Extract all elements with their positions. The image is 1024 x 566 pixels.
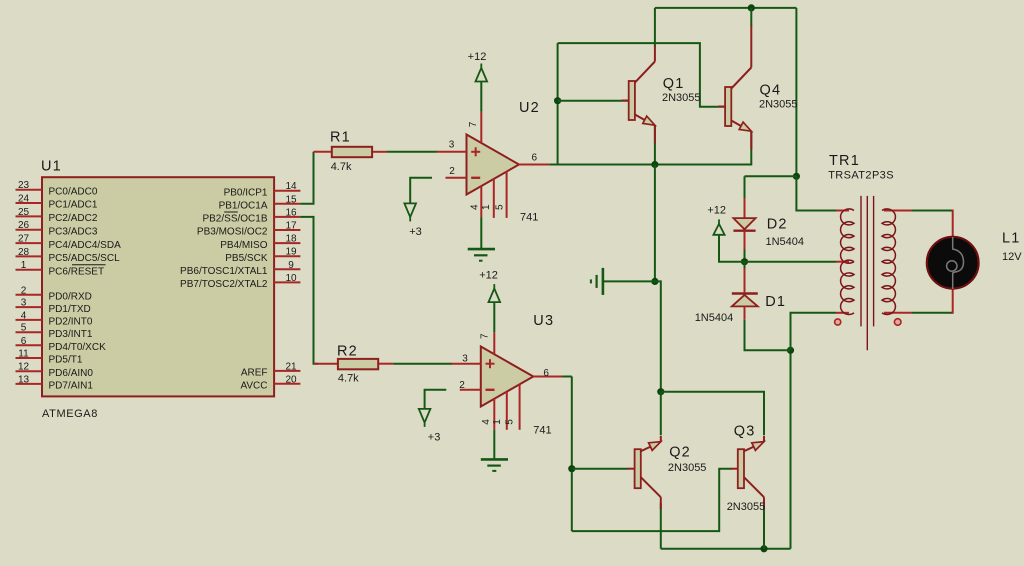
wire D2 node to D2 anode	[745, 175, 797, 177]
svg-text:25: 25	[18, 207, 30, 218]
wire bottom branch to Q3 base	[572, 469, 732, 531]
U1 pin 2 PD0/RXD	[16, 285, 92, 302]
svg-text:3: 3	[462, 354, 468, 365]
TR1 secondary winding	[882, 209, 912, 315]
svg-text:1: 1	[21, 260, 27, 271]
svg-text:AREF: AREF	[241, 368, 268, 379]
svg-text:+12: +12	[479, 270, 498, 282]
svg-text:1: 1	[492, 419, 503, 425]
Q1 collector lead	[635, 46, 655, 83]
svg-text:PC4/ADC4/SDA: PC4/ADC4/SDA	[49, 240, 122, 251]
svg-text:R2: R2	[337, 344, 358, 360]
wire diode junction to transformer center tap	[745, 261, 837, 263]
node ground junction dot	[651, 278, 658, 285]
svg-text:5: 5	[21, 323, 27, 334]
U3 pin 3 (+) lead	[451, 354, 481, 365]
svg-text:28: 28	[18, 247, 30, 258]
Q4 emitter lead with arrow	[731, 121, 751, 150]
svg-text:10: 10	[285, 273, 297, 284]
node D2 top junction dot	[793, 173, 800, 180]
svg-text:R1: R1	[330, 130, 351, 146]
svg-text:13: 13	[18, 374, 30, 385]
U2 pin 4 lead	[470, 186, 482, 217]
svg-text:Q1: Q1	[663, 76, 685, 92]
svg-text:Q3: Q3	[734, 424, 756, 440]
svg-text:+12: +12	[468, 51, 487, 63]
svg-text:U2: U2	[519, 100, 540, 116]
node U2out junction dot	[554, 97, 561, 104]
lamp L1	[927, 237, 979, 289]
svg-text:4: 4	[21, 310, 27, 321]
svg-text:PC3/ADC3: PC3/ADC3	[49, 226, 98, 237]
node Q2 emitter junction dot	[657, 388, 664, 395]
U1 pin 19 PB5/SCK	[225, 247, 300, 264]
svg-text:Q2: Q2	[669, 445, 691, 461]
svg-text:9: 9	[288, 260, 294, 271]
U3 pin 2 wire to +3 terminal	[425, 390, 447, 409]
svg-text:2: 2	[449, 166, 455, 177]
svg-text:27: 27	[18, 234, 30, 245]
Q2 collector lead	[641, 477, 661, 509]
svg-text:TRSAT2P3S: TRSAT2P3S	[828, 169, 894, 181]
svg-text:+12: +12	[707, 205, 726, 217]
svg-text:11: 11	[18, 349, 29, 360]
power terminal +12 above U3	[489, 284, 501, 302]
svg-text:2N3055: 2N3055	[759, 99, 798, 111]
node U3out junction dot	[568, 465, 575, 472]
U1 pin 6 PD4/T0/XCK	[16, 336, 107, 353]
svg-text:2N3055: 2N3055	[668, 462, 707, 474]
resistor R2	[314, 359, 393, 369]
wire lamp bottom to transformer secondary bottom	[912, 290, 953, 314]
svg-text:7: 7	[479, 333, 490, 339]
Q4 collector lead	[731, 25, 751, 89]
U1 pin 18 PB4/MISO	[220, 234, 300, 251]
wire D2 node to transformer primary top	[796, 176, 836, 210]
U2 pin 3 (+) lead	[437, 139, 467, 152]
wire Q4 collector riser	[750, 8, 752, 26]
power terminal +12 above U2	[476, 64, 488, 82]
svg-text:6: 6	[532, 152, 538, 163]
wire U2 pin4 to ground	[480, 217, 482, 248]
svg-text:PB6/TOSC1/XTAL1: PB6/TOSC1/XTAL1	[180, 266, 268, 277]
Q1 emitter lead with arrow	[635, 115, 655, 144]
svg-text:U3: U3	[533, 313, 554, 329]
svg-text:20: 20	[285, 374, 297, 385]
TR1 primary polarity dot	[835, 319, 841, 325]
wire D1 node to D1 cathode column	[745, 320, 791, 350]
svg-text:PC1/ADC1: PC1/ADC1	[49, 200, 98, 211]
U1 pin 10 PB7/TOSC2/XTAL2	[180, 273, 300, 290]
U1 pin 16 PB2/SS/OC1B	[202, 207, 300, 224]
svg-text:PB7/TOSC2/XTAL2: PB7/TOSC2/XTAL2	[180, 279, 268, 290]
U1 pin 9 PB6/TOSC1/XTAL1	[180, 260, 300, 277]
Q3 collector lead	[744, 477, 764, 509]
svg-text:23: 23	[18, 180, 30, 191]
svg-text:14: 14	[285, 181, 297, 192]
svg-text:PD0/RXD: PD0/RXD	[49, 292, 92, 303]
svg-text:2N3055: 2N3055	[662, 92, 701, 104]
U3 pin 1 lead	[492, 392, 507, 430]
U2 pin 2 wire to +3 terminal	[410, 178, 432, 204]
U1 pin 21 AREF	[241, 361, 301, 378]
power terminal +12 at diode junction	[713, 219, 744, 261]
svg-text:6: 6	[543, 368, 549, 379]
svg-text:PD5/T1: PD5/T1	[49, 355, 83, 366]
microcontroller U1 body	[42, 177, 274, 396]
wire U3 pin7 to +12 terminal	[493, 302, 495, 332]
wire Q1 emitter horizontal to Q4 emitter	[655, 125, 751, 165]
U1 pin 20 AVCC	[240, 374, 300, 391]
wire R2 to U3 pin3	[393, 363, 452, 365]
svg-text:18: 18	[285, 234, 297, 245]
U1 pin 13 PD7/AIN1	[16, 374, 94, 391]
wire Q3 collector drop	[763, 503, 765, 549]
svg-text:PC6/RESET: PC6/RESET	[49, 266, 105, 277]
svg-text:+3: +3	[409, 226, 422, 238]
svg-text:2: 2	[21, 285, 27, 296]
svg-text:12V: 12V	[1002, 251, 1022, 263]
U2 pin 5 lead	[494, 172, 506, 218]
svg-text:26: 26	[18, 220, 30, 231]
svg-text:7: 7	[468, 121, 479, 127]
svg-text:5: 5	[504, 419, 515, 425]
U1 pin 3 PD1/TXD	[16, 298, 91, 315]
wire right vertical to D2 node	[795, 8, 797, 176]
wire U2 pin7 to +12 terminal	[480, 82, 482, 112]
svg-text:U1: U1	[41, 159, 62, 175]
U1 pin 14 PB0/ICP1	[224, 181, 301, 198]
svg-text:PB5/SCK: PB5/SCK	[225, 253, 268, 264]
svg-text:TR1: TR1	[829, 153, 860, 169]
svg-text:ATMEGA8: ATMEGA8	[42, 408, 98, 420]
transformer TR1 core	[861, 196, 874, 350]
ground symbol below U3	[481, 459, 508, 471]
svg-text:3: 3	[449, 139, 455, 150]
wire to Q1 base	[558, 100, 629, 102]
U2 pin 7 lead	[468, 112, 481, 143]
svg-text:D1: D1	[765, 294, 786, 310]
wire Q2 emitter stub	[660, 392, 662, 435]
U3 pin 6 output lead	[533, 368, 562, 379]
TR1 secondary polarity dot	[894, 319, 901, 326]
U1 pin 23 PC0/ADC0	[16, 180, 98, 197]
svg-text:PD3/INT1: PD3/INT1	[49, 329, 93, 340]
wire pin16 to R2	[300, 217, 318, 364]
Q2 emitter lead with arrow	[641, 436, 661, 452]
transistor Q3 (2N3055) body bar	[731, 449, 744, 488]
U1 pin 12 PD6/AIN0	[16, 362, 94, 379]
power terminal +3 below U3 pin2	[419, 409, 431, 427]
TR1 primary winding lower (center tap and bottom pin)	[836, 260, 854, 314]
U3 pin 7 lead	[479, 332, 494, 354]
U1 pin 1 PC6/RESET	[16, 260, 106, 277]
svg-text:Q4: Q4	[760, 83, 782, 99]
node Q4 collector junction dot	[748, 4, 755, 11]
svg-text:4: 4	[481, 419, 492, 425]
wire U3 pin4 to ground	[493, 430, 495, 459]
wire transformer secondary top to lamp	[912, 210, 953, 237]
U2 pin 2 (-) lead	[446, 166, 467, 178]
U1 pin 27 PC4/ADC4/SDA	[16, 234, 122, 251]
wire U3 output vertical branch	[571, 377, 573, 532]
wire Q2 collector drop	[660, 503, 662, 549]
svg-text:PD6/AIN0: PD6/AIN0	[49, 368, 94, 379]
U1 pin 15 PB1/OC1A	[219, 194, 301, 211]
op-amp U3 (741)	[481, 347, 534, 407]
op-amp U2 (741)	[467, 135, 520, 195]
node Q3 collector junction dot	[760, 545, 767, 552]
svg-text:16: 16	[285, 207, 297, 218]
ground symbol mid-left	[591, 268, 655, 295]
ground symbol below U2	[468, 249, 495, 261]
diode D1 (cathode top, anode bottom)	[732, 262, 758, 320]
wire U2 output to Q1 emitter junction	[549, 164, 655, 166]
U1 pin 25 PC2/ADC2	[16, 207, 98, 224]
svg-text:PD4/T0/XCK: PD4/T0/XCK	[49, 342, 107, 353]
U2 pin 1 lead	[481, 179, 494, 218]
svg-text:PB1/OC1A: PB1/OC1A	[219, 201, 268, 212]
wire U3 output to branch corner	[563, 376, 572, 378]
svg-text:12: 12	[18, 362, 30, 373]
U2 pin 6 output lead	[519, 152, 549, 164]
wire Q1 collector riser	[654, 8, 656, 47]
svg-text:PD1/TXD: PD1/TXD	[49, 304, 91, 315]
svg-text:D2: D2	[767, 216, 788, 232]
U1 pin 17 PB3/MOSI/OC2	[197, 221, 300, 238]
svg-text:15: 15	[285, 194, 297, 205]
U1 pin 24 PC1/ADC1	[16, 194, 98, 211]
svg-text:PB3/MOSI/OC2: PB3/MOSI/OC2	[197, 227, 268, 238]
U1 pin 5 PD3/INT1	[16, 323, 93, 340]
U3 pin 4 lead	[481, 399, 494, 430]
svg-text:PB4/MISO: PB4/MISO	[220, 240, 267, 251]
wire top branch to Q4 base	[558, 43, 727, 107]
svg-text:L1: L1	[1002, 231, 1021, 247]
svg-text:17: 17	[285, 221, 297, 232]
svg-text:4: 4	[470, 204, 481, 210]
svg-text:19: 19	[285, 247, 297, 258]
svg-text:3: 3	[21, 298, 27, 309]
diode D2 (anode top, cathode bottom)	[733, 176, 755, 261]
wire to Q2 base	[572, 468, 628, 470]
U3 pin 2 (-) lead	[459, 380, 481, 391]
U1 pin 26 PC3/ADC3	[16, 220, 98, 237]
wire Q2 emitter junction to Q3 emitter	[661, 392, 764, 435]
svg-text:PB0/ICP1: PB0/ICP1	[224, 187, 268, 198]
U3 pin 5 lead	[504, 384, 519, 429]
svg-text:21: 21	[285, 361, 297, 372]
svg-text:24: 24	[18, 194, 30, 205]
svg-text:PC2/ADC2: PC2/ADC2	[49, 213, 98, 224]
power terminal +3 below U2 pin2	[404, 203, 416, 221]
svg-text:4.7k: 4.7k	[331, 161, 352, 173]
wire Q1 emitter down to ground node	[654, 165, 656, 282]
U1 pin 11 PD5/T1	[16, 349, 83, 366]
node Q1 emitter junction dot	[651, 161, 658, 168]
svg-text:+3: +3	[428, 432, 441, 444]
U1 pin 28 PC5/ADC5/SCL	[16, 247, 121, 264]
transistor Q4 (2N3055) body bar	[718, 87, 731, 126]
svg-text:1N5404: 1N5404	[695, 312, 734, 324]
resistor R1	[314, 147, 387, 157]
wire bottom horizontal (Q2/Q3 collectors)	[661, 548, 791, 550]
svg-text:741: 741	[533, 424, 551, 436]
svg-text:PD7/AIN1: PD7/AIN1	[49, 381, 94, 392]
wire R1 to U2 pin3	[387, 151, 437, 153]
node D1-D2 junction dot	[741, 258, 748, 265]
svg-text:PD2/INT0: PD2/INT0	[49, 317, 93, 328]
svg-text:PC0/ADC0: PC0/ADC0	[49, 186, 98, 197]
svg-text:AVCC: AVCC	[240, 381, 267, 392]
transistor Q1 (2N3055) body bar	[622, 81, 635, 120]
svg-text:2: 2	[459, 380, 465, 391]
Q3 emitter lead with arrow	[744, 436, 764, 452]
U1 pin 4 PD2/INT0	[16, 310, 93, 327]
wire U2 output branch up	[557, 43, 559, 164]
wire right vertical up to D1 node	[790, 350, 792, 548]
wire D1 node to transformer primary bottom	[791, 313, 837, 351]
svg-text:4.7k: 4.7k	[338, 373, 359, 385]
TR1 primary winding upper (pin top)	[836, 209, 854, 263]
wire pin15 to R1	[300, 152, 313, 204]
svg-text:5: 5	[494, 204, 505, 210]
node D1 bottom junction dot	[787, 347, 794, 354]
wire top horizontal (Q1/Q4 collectors)	[655, 7, 797, 9]
svg-text:6: 6	[21, 336, 27, 347]
svg-text:PB2/SS/OC1B: PB2/SS/OC1B	[202, 214, 267, 225]
svg-text:2N3055: 2N3055	[727, 501, 766, 513]
svg-text:PC5/ADC5/SCL: PC5/ADC5/SCL	[49, 253, 121, 264]
wire ground node jog to Q2 emitter column	[655, 281, 661, 391]
svg-text:1: 1	[481, 204, 492, 210]
svg-text:1N5404: 1N5404	[766, 236, 805, 248]
svg-text:741: 741	[520, 212, 538, 224]
transistor Q2 (2N3055) body bar	[628, 449, 641, 488]
